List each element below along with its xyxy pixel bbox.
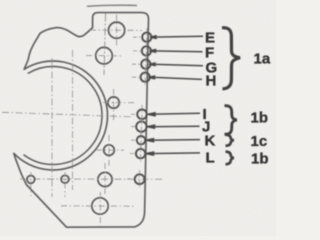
group labels 1a 1b 1c 1b bbox=[251, 50, 271, 167]
hole letters E F G H I J K L bbox=[202, 30, 217, 167]
hole P (large lower hole) bbox=[98, 172, 112, 186]
centerline vertical of hole C bbox=[113, 89, 115, 120]
centerline ticks of edge holes bbox=[127, 28, 147, 189]
hole G (edge) bbox=[141, 60, 150, 69]
centerline: second vertical axis bbox=[72, 50, 74, 190]
centerline: bore vertical axis bbox=[51, 58, 53, 197]
pin hole a bbox=[27, 176, 35, 184]
brace for group 1b (I-J) bbox=[225, 106, 237, 135]
hole L (edge) bbox=[136, 149, 145, 158]
hole B bbox=[96, 47, 113, 64]
hole K (edge) bbox=[137, 136, 145, 144]
brace for group 1b (L) bbox=[226, 152, 234, 165]
hole A (tab hole) bbox=[109, 22, 125, 38]
centerline vertical of pin hole a bbox=[30, 172, 32, 196]
centerline vertical of pin hole b bbox=[64, 172, 66, 197]
svg-text:L: L bbox=[206, 150, 215, 167]
scan streak above tab bbox=[87, 5, 137, 6]
brace for group 1a (E-H) bbox=[222, 28, 240, 89]
centerline vertical of hole B bbox=[104, 14, 106, 76]
svg-text:1b: 1b bbox=[251, 109, 269, 126]
hole F (edge) bbox=[142, 46, 151, 55]
centerline horizontal of hole Q bbox=[61, 205, 134, 207]
hole E (edge) bbox=[142, 33, 151, 42]
svg-text:1b: 1b bbox=[251, 151, 269, 168]
pin hole b bbox=[61, 175, 69, 183]
receiver body outline bbox=[14, 13, 149, 228]
svg-text:K: K bbox=[205, 132, 216, 149]
hole I (edge) bbox=[137, 110, 147, 120]
brace for group 1c (K) bbox=[226, 135, 234, 146]
hole M (edge, unlabelled) bbox=[135, 174, 145, 184]
centerline vertical of hole D bbox=[108, 135, 110, 168]
centerline vertical of hole A bbox=[116, 15, 118, 47]
hole D bbox=[104, 145, 115, 156]
centerline vertical of hole Q bbox=[99, 192, 101, 227]
centerline horizontal of hole A bbox=[90, 29, 142, 31]
svg-text:H: H bbox=[206, 73, 217, 90]
centerline horizontal of hole D bbox=[96, 149, 124, 151]
hole J (edge) bbox=[136, 121, 146, 131]
svg-text:1c: 1c bbox=[251, 133, 268, 150]
centerline horizontal of hole B bbox=[86, 55, 122, 57]
bore inner contour arc bbox=[24, 66, 102, 164]
svg-text:1a: 1a bbox=[254, 50, 271, 67]
hole C bbox=[108, 97, 119, 108]
centerline horizontal y=179 through lower holes bbox=[20, 178, 164, 180]
hole H (edge) bbox=[141, 73, 150, 82]
hole Q (bottom hole) bbox=[92, 198, 108, 214]
centerline horizontal of hole C bbox=[103, 102, 134, 104]
centerline vertical of hole P bbox=[104, 163, 106, 195]
leader lines with arrowheads for holes E-L bbox=[146, 36, 203, 155]
centerline: bore horizontal axis bbox=[2, 112, 131, 117]
